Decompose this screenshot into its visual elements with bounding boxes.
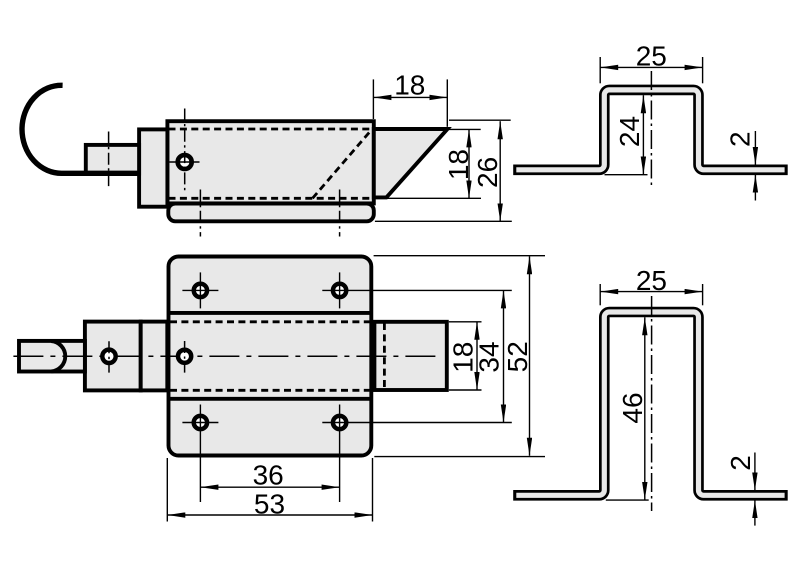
dimension 18 top: dimension line: [373, 96, 447, 98]
svg-text:25: 25: [636, 41, 667, 72]
side view: handle flange: [139, 129, 167, 206]
dimension 53: extension lines: [166, 458, 168, 522]
profile 1: sheet core: [516, 90, 784, 170]
dimension 52: dimension line: [529, 256, 531, 456]
dimension 18 top: extension lines: [372, 79, 374, 119]
side view: hidden channel top: [169, 128, 373, 131]
side view: housing body: [167, 121, 373, 203]
plan view: bolt protruding: [374, 322, 446, 390]
plan view: knob dome arc: [51, 341, 65, 372]
svg-text:53: 53: [254, 489, 285, 520]
svg-text:34: 34: [474, 341, 505, 372]
side view: bolt tip triangle: [374, 129, 448, 197]
plan view: handle pin hole: [102, 350, 115, 363]
svg-text:18: 18: [443, 149, 474, 180]
plan view: mounting plate: [169, 257, 372, 456]
plan view: main centerline: [13, 355, 437, 357]
dimension 34: dimension line: [503, 290, 505, 422]
dimension 46: extension line: [606, 499, 649, 501]
svg-text:46: 46: [617, 392, 648, 423]
dimension 18 vertical: dimension line: [468, 129, 470, 198]
dimension 2 top: arrow lines: [754, 131, 756, 165]
svg-text:36: 36: [253, 459, 284, 490]
dimension 25 top: extension lines: [599, 57, 601, 83]
side view: pivot hole vertical centerline: [184, 109, 186, 191]
side view: base plate: [168, 204, 373, 222]
plan view: rail edge top: [169, 311, 372, 315]
side view: ring pull hook wire: [22, 85, 140, 173]
dimension 18 vertical: extension lines: [449, 128, 481, 130]
plan view: screw hole bottom-left: [194, 416, 207, 429]
dimension 26: extension lines: [449, 119, 511, 121]
side view: screw hole centerline right: [339, 190, 341, 237]
profile 2: sheet core: [516, 312, 784, 495]
svg-text:26: 26: [472, 157, 503, 188]
plan view: hidden bolt edge bottom: [170, 389, 370, 392]
svg-text:52: 52: [502, 341, 533, 372]
plan view: screw hole top-left: [194, 284, 207, 297]
plan view: pivot hole vertical centerline: [184, 341, 186, 373]
plan view: knob shaft: [19, 341, 85, 372]
side view: screw hole centerline left: [199, 190, 201, 237]
dimension 46: dimension line: [644, 317, 646, 500]
plan view: handle block: [85, 322, 141, 391]
side view: pivot hole horizontal crosshair: [170, 161, 200, 163]
plan view: hidden edge in bolt: [383, 323, 386, 389]
side view: handle shaft: [86, 145, 139, 174]
side view: handle centerline: [108, 132, 110, 187]
svg-text:24: 24: [614, 116, 645, 147]
side view: hidden channel bottom: [169, 197, 373, 200]
side view: pivot hole: [178, 155, 192, 169]
svg-text:18: 18: [394, 70, 425, 101]
svg-text:2: 2: [725, 455, 756, 471]
dimension 18 plan: extension lines: [449, 321, 482, 323]
dimension 25 bottom: extension lines: [599, 284, 601, 305]
dimension 24: dimension line: [642, 95, 644, 174]
dimension 52: extension lines: [374, 255, 545, 257]
plan view: screw hole bottom-right: [333, 416, 346, 429]
dimension 24: extension line: [605, 174, 648, 176]
dimension 53: dimension line: [167, 514, 372, 516]
profile 1: sheet outline: [513, 90, 788, 170]
svg-text:2: 2: [725, 131, 756, 147]
profile 2: centerline: [651, 296, 653, 511]
dimension 2 bottom: arrow lines: [754, 453, 756, 491]
side view: hidden bolt diagonal: [313, 130, 372, 199]
profile 2: sheet outline: [513, 312, 788, 495]
dimension 18 plan: dimension line: [476, 322, 478, 390]
profile 1: centerline: [650, 71, 652, 185]
dimension 36: dimension line: [200, 486, 339, 488]
plan view: handle pin hole vertical centerline: [108, 341, 110, 372]
plan view: handle flange: [141, 322, 168, 391]
plan view: rail edge bottom: [169, 397, 372, 401]
svg-text:25: 25: [636, 265, 667, 296]
dimension 25 bottom: dimension line: [600, 291, 702, 293]
plan view: hidden bolt edge top: [170, 320, 370, 323]
plan view: screw hole top-right: [333, 284, 346, 297]
dimension 25 top: dimension line: [600, 66, 702, 68]
plan view: pivot hole: [178, 350, 191, 363]
dimension 26: dimension line: [499, 121, 501, 221]
